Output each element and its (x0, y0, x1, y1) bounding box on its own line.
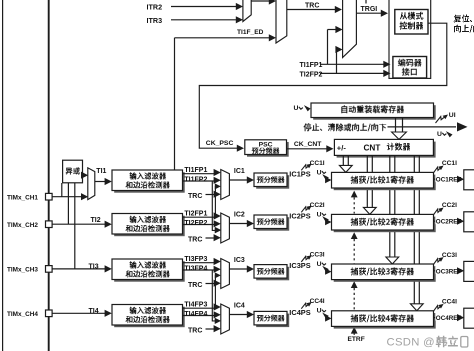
flag CC3I left (301, 256, 309, 261)
block prescaler ch1 (256, 175, 289, 189)
wire TI1F_ED (175, 37, 270, 39)
svg-text:OC3REF: OC3REF (436, 268, 462, 275)
wire IC1PS to CCR (325, 177, 331, 183)
bus CNT to CCR1 (342, 156, 344, 166)
flag CC2I right (433, 209, 441, 215)
svg-text:TRC: TRC (188, 327, 202, 334)
flag CC1I right (433, 167, 441, 173)
svg-text:IC3: IC3 (234, 257, 245, 264)
label reset up-down (454, 15, 473, 23)
svg-text:U: U (317, 211, 322, 218)
svg-text:+/-: +/- (337, 144, 347, 153)
block output stage ch3 (cut) (464, 261, 474, 281)
block output stage ch2 (cut) (464, 212, 474, 232)
svg-text:IC4PS: IC4PS (289, 308, 310, 317)
wire TI1FP1 branch to TRGI mux (328, 29, 337, 31)
block XOR (63, 160, 83, 183)
dashed rail seg3 (351, 281, 358, 288)
block prescaler ch2 (256, 217, 289, 231)
svg-text:U: U (317, 308, 322, 315)
svg-text:CC2I: CC2I (310, 202, 325, 209)
svg-text:TIMx_CH3: TIMx_CH3 (7, 267, 38, 274)
svg-text:TI3: TI3 (89, 263, 99, 270)
svg-text:CC4I: CC4I (310, 298, 325, 305)
wire TI2FP1 (183, 216, 216, 218)
pad CH3 (46, 266, 53, 273)
wire cross mux input ch1 (215, 183, 221, 189)
block capture compare register 3 (334, 266, 436, 282)
svg-text:TI2FP1: TI2FP1 (184, 211, 207, 218)
svg-text:CC3I: CC3I (442, 252, 457, 259)
svg-text:TI3FP4: TI3FP4 (184, 266, 207, 273)
svg-text:TRGI: TRGI (361, 6, 378, 13)
svg-text:TI2FP2: TI2FP2 (300, 71, 323, 78)
block output stage ch1 (cut) (464, 170, 474, 190)
label stop clear updown (304, 123, 387, 131)
wire TRC ch4 (206, 328, 216, 330)
wire TI1 (95, 181, 106, 183)
block input filter ch1 (114, 172, 185, 193)
wire TI1FP2 down to IC2 mux (212, 181, 215, 230)
svg-text:CC1I: CC1I (310, 160, 325, 167)
wire TI2FP2 to encoder (320, 72, 384, 74)
pad CH1 (46, 193, 53, 200)
wire TI3FP4 down to IC4 mux (212, 270, 215, 321)
svg-text:TIMx_CH2: TIMx_CH2 (7, 222, 38, 229)
block prescaler ch4 (256, 314, 289, 328)
flag CC3I right (433, 259, 441, 265)
wire xor input CH3 (74, 183, 76, 269)
mux IC3 selector (221, 259, 230, 289)
pad CH4 (46, 310, 53, 317)
wire IC2PS to CCR (325, 219, 331, 225)
wire TI4FP3 up to IC3 mux (215, 275, 216, 308)
wire TI2FP2 branch to TRGI mux (337, 49, 338, 51)
svg-text:OC1REF: OC1REF (436, 177, 462, 184)
svg-text:U: U (437, 131, 442, 138)
block input filter ch2 (114, 216, 185, 237)
wire TIMx_CH3 pad line (52, 268, 105, 270)
block input filter ch3 (114, 261, 185, 282)
svg-text:TIMx_CH1: TIMx_CH1 (7, 195, 38, 202)
wire ITR to trigger mux (251, 0, 270, 2)
svg-text:ETRF: ETRF (348, 336, 365, 343)
svg-text:TI4FP3: TI4FP3 (184, 302, 207, 309)
bus CNT to CCR4 (413, 156, 415, 304)
wire ITR3 (171, 19, 237, 21)
svg-text:TRC: TRC (188, 282, 202, 289)
wire TI3FP3 (183, 262, 216, 264)
wire IC4PS to CCR (325, 315, 331, 321)
wire IC1 to prescaler (229, 179, 247, 181)
block PSC prescaler (247, 142, 289, 157)
svg-text:CC4I: CC4I (442, 299, 457, 306)
svg-text:ITR3: ITR3 (147, 16, 163, 25)
wire TIMx_CH2 pad line (52, 223, 105, 225)
mux IC2 selector (221, 213, 230, 243)
svg-text:UI: UI (449, 112, 456, 119)
svg-text:CK_PSC: CK_PSC (206, 140, 234, 147)
wire xor input CH2 (67, 183, 69, 224)
mux TRGI selector (343, 0, 357, 58)
wire IC3 to prescaler (229, 268, 247, 270)
wire xor input CH1 (61, 183, 63, 197)
svg-text:CC1I: CC1I (442, 160, 457, 167)
mux trigger edge selector (276, 0, 287, 43)
block input filter ch4 (114, 307, 185, 328)
svg-text:CC3I: CC3I (310, 251, 325, 258)
block capture compare register 4 (334, 313, 436, 329)
wire TIMx_CH4 pad line (52, 312, 105, 314)
dashed rail seg2 (351, 232, 358, 239)
wire TI1FP2 (183, 180, 216, 182)
block auto-reload register (313, 105, 436, 120)
wire TI1FP1 (183, 173, 216, 175)
wire TI4FP4 (183, 315, 216, 317)
wire slave ctrl to CK_PSC (199, 23, 446, 148)
svg-text:TI1FP1: TI1FP1 (184, 167, 207, 174)
wire TI4FP3 (183, 307, 216, 309)
mux IC1 selector (221, 170, 230, 200)
svg-text:U: U (294, 105, 299, 112)
wire ETRF (351, 327, 358, 334)
svg-text:IC1: IC1 (234, 168, 245, 175)
block capture compare register 2 (334, 217, 436, 233)
svg-text:U: U (317, 169, 322, 176)
svg-text:IC3PS: IC3PS (289, 261, 310, 270)
wire OC4REF (434, 317, 458, 319)
svg-text:IC2PS: IC2PS (289, 212, 310, 221)
bus ARR to CNT (395, 118, 397, 133)
svg-text:CC2I: CC2I (442, 202, 457, 209)
flag CC4I right (433, 306, 441, 312)
svg-text:PSC: PSC (259, 142, 273, 149)
flag UI update interrupt (436, 116, 446, 123)
svg-text:TI1FP1: TI1FP1 (300, 62, 323, 69)
svg-text:IC1PS: IC1PS (289, 170, 310, 179)
block slave mode controller (395, 10, 428, 35)
svg-text:CK_CNT: CK_CNT (294, 141, 322, 148)
wire cross mux input ch4 (215, 318, 221, 324)
wire CK_CNT (287, 148, 327, 150)
wire TRGI (356, 12, 381, 14)
svg-text:ITR2: ITR2 (147, 3, 163, 12)
left border line (2, 0, 4, 351)
block prescaler ch3 (256, 267, 289, 281)
svg-text:CSDN @: CSDN @ (387, 337, 435, 349)
bus CNT to CCR2 (366, 156, 368, 208)
wire TI2FP1 up to IC1 mux (215, 186, 216, 217)
mux ITR selector (243, 0, 251, 22)
svg-text:TI2: TI2 (91, 217, 101, 224)
wire OC3REF (434, 270, 458, 272)
wire TRC ch1 (206, 194, 216, 196)
flag CC4I left (301, 303, 309, 308)
wire cross mux input ch3 (215, 272, 221, 278)
wire TRC to TRGI mux (287, 9, 336, 11)
bus CNT to CCR3 (389, 156, 391, 257)
block CNT counter (337, 142, 436, 158)
wire U event out (388, 126, 457, 128)
wire IC4 to prescaler (229, 314, 247, 316)
wire OC2REF (434, 220, 458, 222)
svg-text:TI1: TI1 (96, 168, 106, 175)
svg-text:OC2REF: OC2REF (436, 219, 462, 226)
svg-text:IC4: IC4 (234, 302, 245, 309)
wire ITR2 (171, 6, 237, 8)
pad CH2 (46, 221, 53, 228)
pin bus line (48, 0, 50, 351)
svg-text:TI4FP4: TI4FP4 (184, 311, 207, 318)
svg-text:TRC: TRC (188, 236, 202, 243)
svg-text:CNT: CNT (364, 144, 381, 153)
wire TI3FP4 (183, 269, 216, 271)
svg-text:OC4REF: OC4REF (436, 315, 462, 322)
svg-text:TI2FP2: TI2FP2 (184, 220, 207, 227)
wire TRC ch2 (206, 237, 216, 239)
box trigger controller (389, 0, 431, 78)
wire TRC ch3 (206, 283, 216, 285)
svg-text:TIMx_CH4: TIMx_CH4 (7, 311, 38, 318)
svg-text:TI1F_ED: TI1F_ED (237, 29, 264, 36)
svg-text:TI4: TI4 (89, 308, 99, 315)
svg-text:TRC: TRC (188, 193, 202, 200)
wire IC3PS to CCR (325, 268, 331, 274)
wire cross mux input ch2 (215, 227, 221, 233)
block output stage ch4 (cut) (464, 308, 474, 328)
flag CC1I left (301, 165, 309, 170)
wire IC2 to prescaler (229, 223, 247, 225)
wire TIMx_CH1 pad line (52, 196, 84, 198)
svg-text:TRC: TRC (305, 3, 319, 10)
flag CC2I left (301, 207, 309, 212)
wire OC1REF (434, 178, 458, 180)
mux TI1 xor selector (88, 168, 95, 200)
dashed rail seg1 (351, 191, 358, 198)
svg-text:U: U (317, 261, 322, 268)
wire TI2FP2 (183, 224, 216, 226)
wire TI1FP1 to encoder (320, 63, 384, 65)
svg-text:TI1FP2: TI1FP2 (184, 177, 207, 184)
block capture compare register 1 (334, 175, 436, 191)
mux IC4 selector (221, 304, 230, 334)
wire xor out (83, 174, 85, 176)
svg-text:IC2: IC2 (234, 211, 245, 218)
svg-text:TI3FP3: TI3FP3 (184, 256, 207, 263)
block encoder interface (393, 57, 427, 79)
